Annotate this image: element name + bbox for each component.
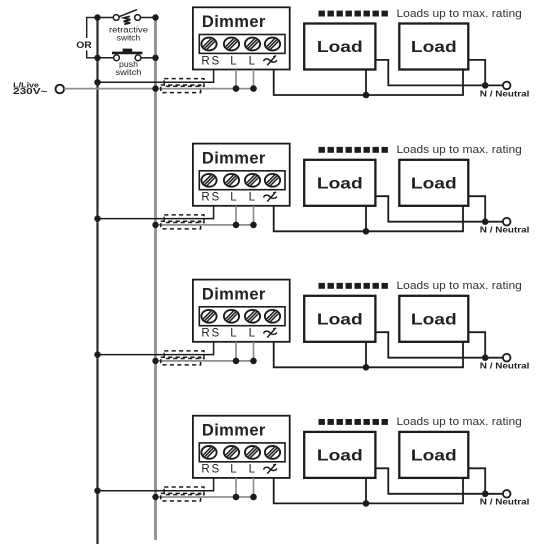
wire: load LD2a bottom feed xyxy=(365,206,367,232)
dimmer U4 screw terminal S xyxy=(221,445,241,459)
junction: LD4a feed on dimmed-live (channel 4) xyxy=(363,500,370,507)
dashed optional-link box around S wire (channel 4) xyxy=(164,487,204,495)
dimmer U2 terminal strip xyxy=(199,171,285,190)
dimmer U3 terminal strip xyxy=(199,307,285,326)
junction: live feed on live bus (channel 1) xyxy=(152,85,158,91)
wire: switched-live bus (left vertical) xyxy=(96,18,98,545)
terminal: L/Live 230V input xyxy=(56,85,65,94)
wire: LD3a to neutral xyxy=(375,332,503,358)
junction: L2 on live feed (channel 3) xyxy=(250,358,257,365)
junction: S wire on switched bus (channel 3) xyxy=(94,351,100,357)
svg-text:N / Neutral: N / Neutral xyxy=(480,362,530,371)
wire: live bus (right vertical) xyxy=(154,18,157,541)
wire: U3 dimmed output to loads xyxy=(274,342,463,368)
load LD4b xyxy=(399,432,468,478)
wire: U3 L2 terminal down xyxy=(253,342,255,361)
terminal: N/Neutral (channel 1) xyxy=(503,82,511,90)
dimmer U1 terminal strip xyxy=(199,35,285,54)
dimmer U3 dimmed-output pin symbol xyxy=(264,328,278,337)
svg-text:L: L xyxy=(249,328,256,340)
wire: LD3b to neutral xyxy=(468,332,485,358)
svg-text:N / Neutral: N / Neutral xyxy=(480,226,530,235)
junction: LD4b on neutral xyxy=(482,491,489,498)
wire: U2 L2 terminal down xyxy=(253,206,255,225)
svg-text:S: S xyxy=(211,55,219,67)
svg-text:Load: Load xyxy=(411,175,457,192)
wire: U1 L2 terminal down xyxy=(253,70,255,89)
svg-text:Load: Load xyxy=(411,311,457,328)
terminal: N/Neutral (channel 4) xyxy=(503,490,511,498)
junction: S wire on switched bus (channel 2) xyxy=(94,215,100,221)
svg-text:Load: Load xyxy=(317,39,363,56)
OR bracket xyxy=(87,17,95,59)
svg-text:Load: Load xyxy=(411,447,457,464)
svg-text:Dimmer: Dimmer xyxy=(202,13,266,31)
svg-text:switch: switch xyxy=(117,33,141,42)
wire: U2 L1 terminal down xyxy=(235,206,237,225)
wire: live feed to U3 L terminals xyxy=(156,360,254,362)
wire: LD4a to neutral xyxy=(375,468,503,494)
wire: load LD3a bottom feed xyxy=(365,342,367,368)
dimmer U2 screw terminal R xyxy=(199,173,219,187)
dimmer U4 enclosure xyxy=(193,416,290,478)
dimmer U2 screw terminal S xyxy=(221,173,241,187)
svg-text:L: L xyxy=(249,55,256,67)
wire: U4 S terminal to switched bus xyxy=(98,478,214,491)
junction: L2 on live feed (channel 4) xyxy=(250,494,257,501)
dimmer U1 enclosure xyxy=(193,7,290,69)
junction: LD2b on neutral xyxy=(482,218,489,225)
load LD2a xyxy=(304,160,375,206)
svg-text:L: L xyxy=(230,464,237,476)
junction: L1 on live feed (channel 4) xyxy=(233,494,240,501)
dashed optional-link box around S wire (channel 3) xyxy=(164,351,204,359)
wire: U4 L2 terminal down xyxy=(253,478,255,497)
junction: SW2 left on switched bus xyxy=(94,55,100,61)
junction: SW1 left on switched bus xyxy=(94,14,100,20)
junction: LD1b on neutral xyxy=(482,82,489,89)
junction: L1 on live feed (channel 3) xyxy=(233,358,240,365)
dimmer U3 screw terminal R xyxy=(199,309,219,323)
svg-text:Loads up to max. rating: Loads up to max. rating xyxy=(397,280,522,292)
junction: LD3b on neutral xyxy=(482,354,489,361)
svg-text:R: R xyxy=(201,55,209,67)
load rating bar (channel 1) xyxy=(319,11,388,17)
wire: LD1a to neutral xyxy=(375,60,503,86)
terminal: N/Neutral (channel 2) xyxy=(503,218,511,226)
junction: live feed on live bus (channel 4) xyxy=(152,494,158,500)
terminal: N/Neutral (channel 3) xyxy=(503,354,511,362)
wire: U1 S terminal to switched bus xyxy=(98,70,214,83)
load LD3b xyxy=(399,296,468,342)
svg-text:N / Neutral: N / Neutral xyxy=(480,498,530,507)
svg-text:Load: Load xyxy=(317,447,363,464)
svg-text:Dimmer: Dimmer xyxy=(202,285,266,303)
svg-text:Dimmer: Dimmer xyxy=(202,149,266,167)
push switch SW2 xyxy=(98,49,156,61)
junction: L1 on live feed (channel 2) xyxy=(233,222,240,229)
junction: L2 on live feed (channel 1) xyxy=(250,85,257,92)
junction: L1 on live feed (channel 1) xyxy=(233,85,240,92)
svg-text:230V~: 230V~ xyxy=(13,87,48,96)
dimmer U4 screw terminal L1 xyxy=(242,445,262,459)
load rating bar (channel 3) xyxy=(319,283,388,289)
svg-text:N / Neutral: N / Neutral xyxy=(480,89,530,98)
svg-text:OR: OR xyxy=(76,40,92,50)
dimmer U1 screw terminal S xyxy=(221,37,241,51)
svg-text:L: L xyxy=(249,192,256,204)
svg-text:L: L xyxy=(230,328,237,340)
dimmer U1 screw terminal R xyxy=(199,37,219,51)
wire: U3 S terminal to switched bus xyxy=(98,342,214,355)
wire: live feed to U4 L terminals xyxy=(156,496,254,498)
load rating bar (channel 4) xyxy=(319,419,388,425)
wire: U2 dimmed output to loads xyxy=(274,206,463,232)
load LD4a xyxy=(304,432,375,478)
dashed optional-link box around live wire (channel 1) xyxy=(161,85,201,93)
retractive switch SW1 xyxy=(98,10,156,25)
svg-text:S: S xyxy=(211,464,219,476)
load LD1a xyxy=(304,24,375,70)
wire: U1 dimmed output to loads xyxy=(274,70,463,96)
wire: LD2b to neutral xyxy=(468,196,485,222)
wire: U4 L1 terminal down xyxy=(235,478,237,497)
junction: L2 on live feed (channel 2) xyxy=(250,222,257,229)
junction: live feed on live bus (channel 2) xyxy=(152,222,158,228)
load LD3a xyxy=(304,296,375,342)
svg-text:R: R xyxy=(201,464,209,476)
dimmer U3 screw terminal L2 xyxy=(262,309,282,323)
load rating bar (channel 2) xyxy=(319,147,388,153)
dimmer U3 screw terminal S xyxy=(221,309,241,323)
svg-text:L: L xyxy=(249,464,256,476)
svg-text:Loads up to max. rating: Loads up to max. rating xyxy=(397,8,522,20)
dimmer U3 enclosure xyxy=(193,280,290,342)
svg-text:Loads up to max. rating: Loads up to max. rating xyxy=(397,144,522,156)
svg-text:Load: Load xyxy=(411,39,457,56)
svg-text:Dimmer: Dimmer xyxy=(202,421,266,439)
svg-text:S: S xyxy=(211,192,219,204)
svg-text:switch: switch xyxy=(116,68,142,77)
load LD2b xyxy=(399,160,468,206)
dimmer U1 screw terminal L2 xyxy=(262,37,282,51)
dimmer U4 screw terminal R xyxy=(199,445,219,459)
wire: load LD4a bottom feed xyxy=(365,478,367,504)
dashed optional-link box around live wire (channel 4) xyxy=(161,493,201,501)
wire: U2 S terminal to switched bus xyxy=(98,206,214,219)
wire: live feed to U2 L terminals xyxy=(156,224,254,226)
junction: LD3a feed on dimmed-live (channel 3) xyxy=(363,364,370,371)
svg-text:S: S xyxy=(211,328,219,340)
wire: LD1b to neutral xyxy=(468,60,485,86)
junction: LD1a feed on dimmed-live (channel 1) xyxy=(363,92,370,99)
wire: U3 L1 terminal down xyxy=(235,342,237,361)
wire: U1 L1 terminal down xyxy=(235,70,237,89)
dimmer U1 dimmed-output pin symbol xyxy=(264,56,278,65)
dimmer U4 dimmed-output pin symbol xyxy=(264,464,278,473)
junction: SW1 right on live bus xyxy=(152,14,158,20)
wire: U4 dimmed output to loads xyxy=(274,478,463,504)
dimmer U4 terminal strip xyxy=(199,443,285,462)
junction: S wire on switched bus (channel 1) xyxy=(94,79,100,85)
load LD1b xyxy=(399,24,468,70)
svg-text:Load: Load xyxy=(317,175,363,192)
dimmer U2 dimmed-output pin symbol xyxy=(264,192,278,201)
dashed optional-link box around live wire (channel 2) xyxy=(161,221,201,229)
dimmer U1 screw terminal L1 xyxy=(242,37,262,51)
svg-text:L: L xyxy=(230,192,237,204)
svg-text:R: R xyxy=(201,192,209,204)
svg-text:R: R xyxy=(201,328,209,340)
wire: LD2a to neutral xyxy=(375,196,503,222)
dimmer U2 screw terminal L2 xyxy=(262,173,282,187)
junction: SW2 right on live bus xyxy=(152,55,158,61)
dimmer U3 screw terminal L1 xyxy=(242,309,262,323)
svg-text:L: L xyxy=(230,55,237,67)
wire: LD4b to neutral xyxy=(468,468,485,494)
dimmer U4 screw terminal L2 xyxy=(262,445,282,459)
junction: LD2a feed on dimmed-live (channel 2) xyxy=(363,228,370,235)
wire: live feed to U1 L terminals xyxy=(64,88,253,90)
svg-text:Loads up to max. rating: Loads up to max. rating xyxy=(397,416,522,428)
dashed optional-link box around S wire (channel 1) xyxy=(164,79,204,87)
dashed optional-link box around S wire (channel 2) xyxy=(164,215,204,223)
wire: load LD1a bottom feed xyxy=(365,70,367,96)
dimmer U2 screw terminal L1 xyxy=(242,173,262,187)
dashed optional-link box around live wire (channel 3) xyxy=(161,357,201,365)
junction: S wire on switched bus (channel 4) xyxy=(94,488,100,494)
dimmer U2 enclosure xyxy=(193,144,290,206)
svg-text:Load: Load xyxy=(317,311,363,328)
junction: live feed on live bus (channel 3) xyxy=(152,358,158,364)
